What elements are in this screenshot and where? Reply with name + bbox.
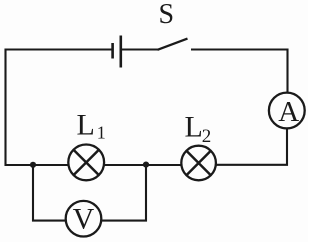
- battery cell: [113, 36, 121, 68]
- wire L2 to node B: [146, 164, 181, 166]
- voltmeter M1 circle: [66, 201, 102, 237]
- svg-text:L: L: [185, 111, 203, 144]
- svg-text:S: S: [159, 0, 175, 30]
- wire ammeter down to bottom-right corner: [216, 128, 287, 164]
- wire switch to top-right corner: [191, 48, 287, 50]
- wire battery to switch: [122, 48, 158, 50]
- ammeter U1 circle: [269, 93, 305, 129]
- wire voltmeter left branch: [33, 164, 66, 221]
- lamp L2 circle with X: [181, 146, 216, 181]
- svg-text:A: A: [278, 96, 299, 128]
- wire left vertical: [4, 49, 6, 167]
- svg-text:V: V: [73, 203, 95, 236]
- switch S blade (open): [158, 39, 188, 50]
- node B junction dot: [143, 162, 149, 168]
- node A junction dot: [30, 162, 36, 168]
- wire node A to bottom-left corner: [5, 164, 34, 166]
- svg-text:1: 1: [97, 123, 106, 143]
- wire node B to L1: [104, 164, 146, 166]
- wire right vertical into ammeter: [286, 49, 288, 93]
- lamp L1 circle with X: [68, 145, 104, 181]
- wire L1 to node A: [33, 164, 68, 166]
- wire top-left horizontal: [5, 48, 112, 50]
- svg-text:L: L: [77, 109, 95, 142]
- wire voltmeter right branch: [101, 165, 146, 221]
- svg-text:2: 2: [202, 126, 212, 147]
